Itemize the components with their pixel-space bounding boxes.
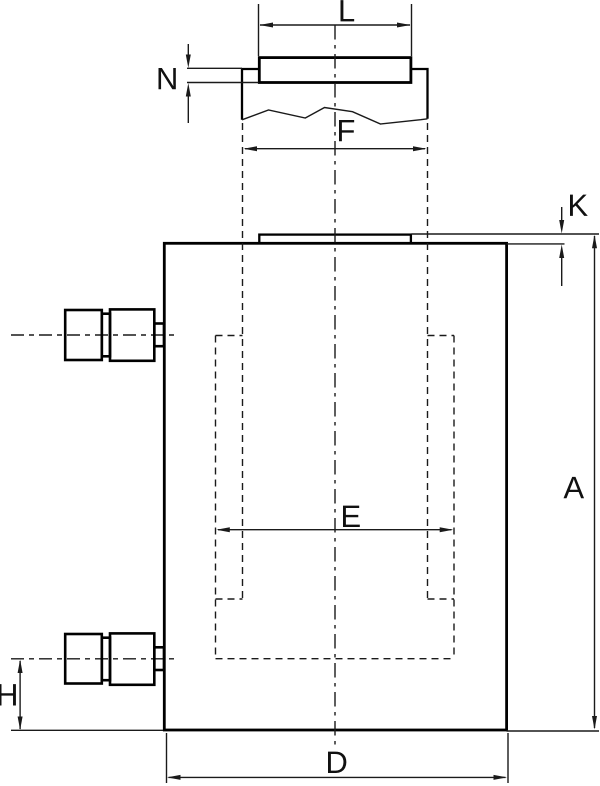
K upper extension line (collar top level) bbox=[412, 233, 600, 235]
label K bbox=[570, 195, 588, 216]
hidden bore top closures bbox=[216, 335, 455, 337]
vertical centerline of cylinder bbox=[334, 25, 336, 746]
dimension F line with arrows bbox=[244, 146, 427, 151]
plunger right shoulder bbox=[411, 69, 428, 119]
saddle cap on plunger bbox=[259, 58, 411, 83]
upper coupler centerline bbox=[11, 334, 176, 336]
D extension lines bbox=[167, 733, 509, 783]
dimension D line with arrows bbox=[167, 775, 507, 780]
label H bbox=[0, 684, 16, 705]
dimension H line with arrows bbox=[18, 660, 23, 731]
dashed extension right (plunger/slot line F-E) bbox=[427, 123, 429, 599]
dimension K arrows (outside) bbox=[559, 207, 564, 286]
dimension A line with arrows bbox=[592, 235, 597, 730]
H bottom extension line bbox=[11, 729, 163, 731]
lower coupler fitting bbox=[65, 633, 164, 684]
dashed extension left (plunger/slot line F-E) bbox=[242, 123, 244, 599]
label L bbox=[341, 0, 355, 21]
dimension L line with arrows bbox=[260, 23, 411, 28]
lower coupler centerline bbox=[11, 658, 176, 660]
dimension L extension lines bbox=[259, 4, 412, 56]
label D bbox=[328, 752, 346, 773]
stop collar on top of body bbox=[259, 235, 411, 244]
label N bbox=[159, 68, 176, 89]
plunger break line (zigzag) bbox=[242, 108, 428, 125]
cylinder body outline bbox=[164, 243, 506, 730]
hidden slot bottom closures bbox=[216, 598, 455, 600]
hidden bore outer right line bbox=[453, 336, 455, 659]
dimension N extension lines bbox=[187, 68, 259, 82]
label A bbox=[564, 477, 585, 498]
upper coupler fitting bbox=[65, 309, 164, 360]
dimension N arrows (outside) bbox=[186, 44, 191, 123]
plunger left shoulder bbox=[242, 69, 259, 120]
K lower extension line (body top level) bbox=[507, 243, 565, 245]
hidden bore bottom line bbox=[216, 658, 455, 660]
A bottom extension line bbox=[507, 730, 600, 732]
label E bbox=[343, 506, 360, 527]
hidden bore outer left line bbox=[215, 336, 217, 659]
dimension E line with arrows bbox=[216, 527, 453, 532]
label F bbox=[339, 120, 354, 141]
